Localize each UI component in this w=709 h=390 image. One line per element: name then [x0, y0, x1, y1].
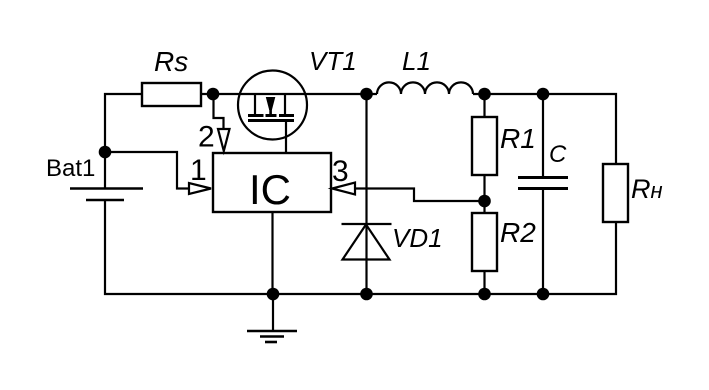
svg-text:VT1: VT1	[309, 46, 357, 76]
node ground rail R2	[478, 288, 491, 301]
transistor Q1 VT1 circle	[238, 71, 307, 140]
wire node under Rs to IC pin 2	[214, 94, 224, 129]
node R1 R2 junction	[478, 195, 491, 208]
svg-text:IC: IC	[249, 166, 291, 213]
capacitor C plates	[518, 178, 568, 189]
node ground rail C	[537, 288, 550, 301]
svg-text:L1: L1	[402, 46, 431, 76]
resistor R2	[472, 213, 497, 271]
transistor VT1 substrate arrow	[266, 97, 276, 115]
inductor L1	[377, 82, 473, 94]
resistor R1	[472, 117, 497, 175]
node L1 right	[478, 88, 491, 101]
pin 3 arrow	[332, 183, 355, 195]
resistor Rs	[142, 83, 201, 106]
node L1 left	[360, 88, 373, 101]
svg-text:Bat1: Bat1	[46, 155, 95, 182]
wire IC bottom to ground rail	[271, 212, 273, 294]
wire C top stub	[542, 94, 544, 177]
svg-text:VD1: VD1	[392, 223, 443, 253]
wire R1 bottom to R2 top	[483, 175, 485, 213]
resistor Rn	[603, 164, 628, 222]
wire battery node to IC pin 1	[105, 152, 189, 189]
wire C bottom stub	[542, 190, 544, 294]
transistor VT1 source stub	[254, 94, 256, 114]
svg-text:C: C	[549, 141, 567, 168]
wire Rn bottom to bottom rail	[105, 200, 616, 294]
transistor VT1 drain stub	[284, 94, 286, 114]
wire IC pin 3 to R1 R2 node	[355, 189, 485, 202]
wire R2 bottom stub	[483, 271, 485, 294]
svg-text:1: 1	[190, 154, 207, 187]
svg-text:Rн: Rн	[631, 174, 663, 204]
diode VD1 cathode bar	[342, 223, 392, 225]
pin 2 arrow	[218, 129, 230, 151]
wire R1 top stub	[483, 94, 485, 117]
pin 1 arrow	[189, 183, 211, 194]
node ground rail VD1	[360, 288, 373, 301]
svg-text:R2: R2	[500, 217, 536, 248]
wire L1 node down to diode	[365, 94, 367, 294]
diode VD1 triangle	[343, 225, 390, 260]
transistor VT1 gate bar	[248, 119, 294, 122]
svg-text:R1: R1	[500, 123, 536, 154]
wire VT1 gate to IC top	[285, 121, 287, 154]
node under Rs	[207, 88, 220, 101]
svg-text:2: 2	[198, 121, 215, 154]
wire top rail Rs to L1 (through VT1)	[201, 93, 377, 95]
node battery tap	[99, 146, 112, 159]
battery Bat1	[70, 189, 143, 201]
wire top rail L1 to Rn corner	[473, 94, 616, 164]
node ground rail IC	[267, 288, 280, 301]
transistor VT1 channel segments	[248, 116, 294, 121]
svg-text:3: 3	[332, 155, 349, 188]
svg-text:Rs: Rs	[154, 46, 188, 77]
wire left rail top (battery plus to top rail)	[105, 94, 142, 188]
ground	[247, 294, 297, 342]
node C top	[537, 88, 550, 101]
op-amp U1 IC box	[213, 153, 331, 212]
